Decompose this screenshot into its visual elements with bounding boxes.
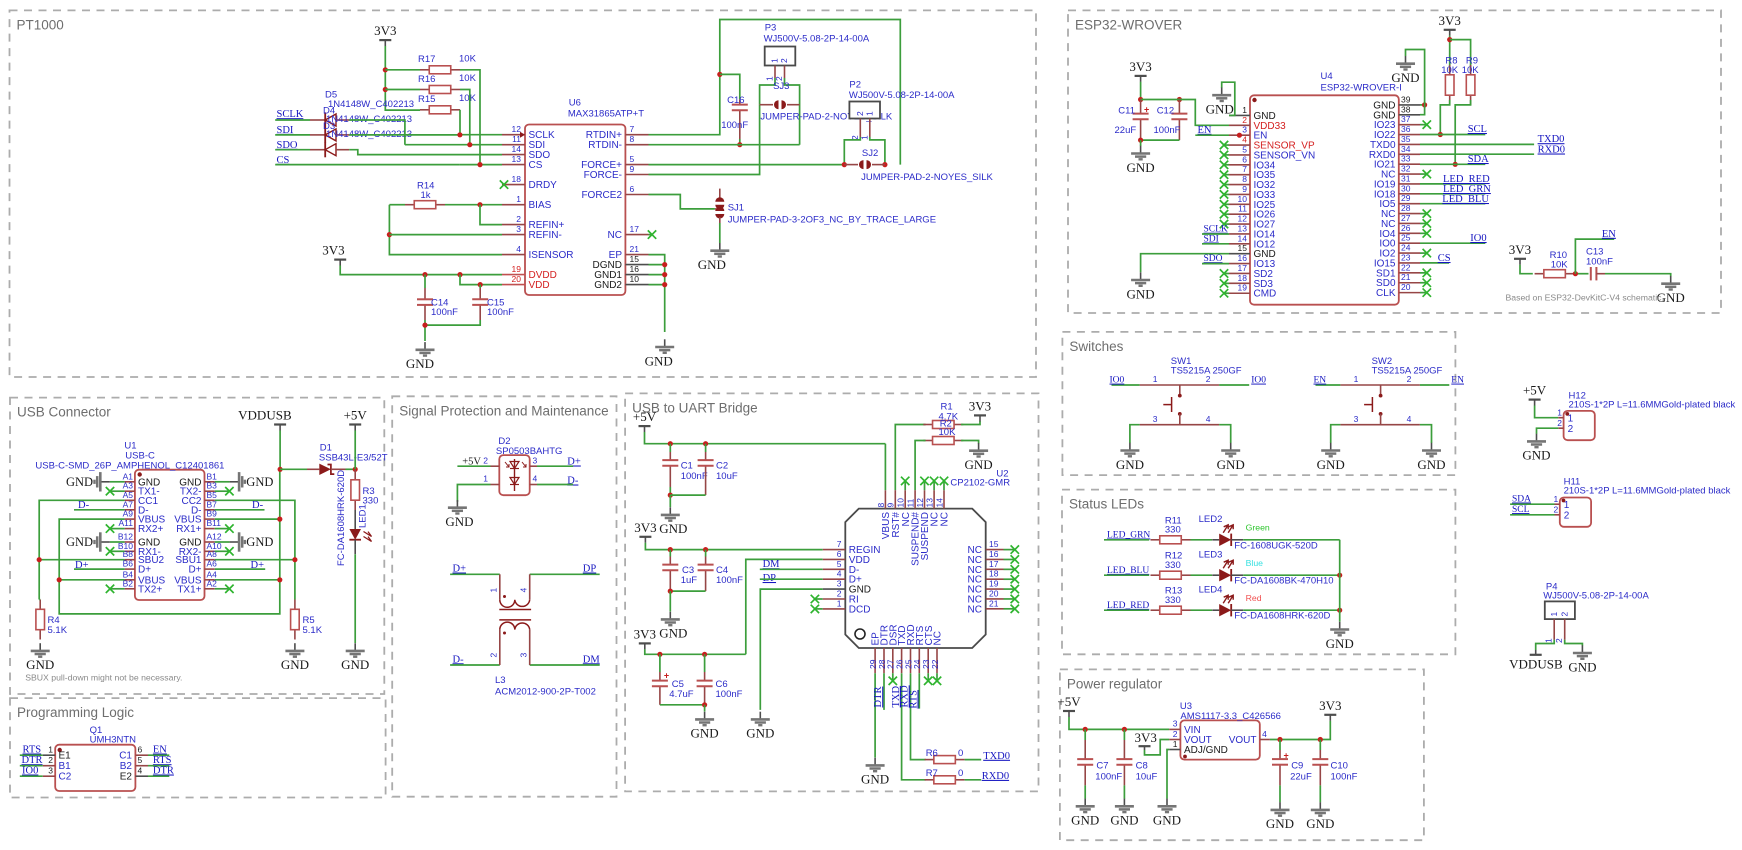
wire R2 to gnd: [961, 441, 979, 444]
wire EP to gnd: [874, 673, 876, 757]
no-connect U4 pin 18: [1220, 279, 1228, 287]
ground U3 ADJ: [1166, 799, 1168, 806]
wire RTS: [20, 754, 43, 756]
U1 pin B7 D-: [205, 509, 215, 511]
wire 3V3 to R15: [385, 46, 420, 110]
ground flag A1: [110, 481, 125, 483]
svg-text:1: 1: [1242, 105, 1247, 115]
U4 pin 33 IO21: [1399, 163, 1420, 165]
no-connect U2 pin10: [901, 477, 909, 485]
wire pins39-38 gnd: [1406, 50, 1425, 115]
wire CC1 down: [39, 500, 124, 599]
svg-text:3V3: 3V3: [1439, 13, 1461, 28]
wire DTR: [20, 765, 43, 767]
inductor L3 winding 2: [500, 622, 530, 629]
svg-text:11: 11: [1238, 204, 1247, 214]
wire nc lead: [1004, 558, 1015, 560]
U2 pin 6 VDD: [823, 558, 846, 560]
wire SDI label: [275, 134, 310, 136]
svg-text:18: 18: [1238, 273, 1248, 283]
svg-text:SDA: SDA: [1512, 495, 1531, 505]
svg-text:GND: GND: [341, 657, 369, 672]
svg-text:SSB43L-E3/52T: SSB43L-E3/52T: [319, 453, 388, 464]
svg-text:19: 19: [1238, 283, 1248, 293]
no-connect U4 pin 21: [1423, 279, 1431, 287]
svg-text:GND: GND: [1317, 457, 1345, 472]
wire D- B7: [215, 509, 265, 511]
svg-text:GND: GND: [698, 257, 726, 272]
wire nc lead: [904, 482, 906, 491]
wire VDDUSB down: [279, 431, 281, 470]
U1 pin B1 GND: [205, 481, 215, 483]
U4 pin 4 SENSOR_VP: [1229, 144, 1250, 146]
wire 3V3 to VDD33: [1141, 100, 1229, 126]
wire LED gnd rail: [1339, 540, 1341, 622]
P3 pin 1: [774, 66, 776, 79]
wire 3V3 to R17: [385, 69, 420, 71]
no-connect U2 pin 16: [1011, 555, 1019, 563]
svg-text:R7: R7: [926, 768, 938, 779]
svg-text:330: 330: [1165, 560, 1181, 571]
junction GND2: [662, 282, 667, 287]
svg-text:ADJ/GND: ADJ/GND: [1184, 745, 1228, 756]
ground flag B1: [215, 481, 230, 483]
svg-text:10K: 10K: [459, 93, 477, 104]
U1 pin B11 RX1+: [205, 528, 215, 530]
U4 pin 11 IO26: [1229, 213, 1250, 215]
wire SW1 right: [1219, 384, 1249, 386]
wire D- A7: [74, 509, 125, 511]
svg-text:6: 6: [138, 745, 143, 755]
P4 pin 2: [1564, 619, 1566, 640]
no-connect A2: [225, 585, 233, 593]
svg-text:SCL: SCL: [1512, 505, 1530, 515]
svg-text:LED1: LED1: [358, 504, 369, 528]
svg-text:CP2102-GMR: CP2102-GMR: [950, 478, 1010, 489]
wire EN q1: [148, 754, 169, 756]
U1 pin A12 GND: [205, 541, 215, 543]
no-connect U4 pin 11: [1220, 210, 1228, 218]
wire R1 to 3V3: [961, 421, 980, 425]
wire C13 to gnd: [1605, 274, 1671, 277]
svg-text:C10: C10: [1331, 761, 1348, 772]
svg-text:2: 2: [1407, 374, 1412, 384]
no-connect U4 pin 19: [1220, 289, 1228, 297]
wire LED1 to gnd: [354, 554, 356, 643]
U4 pin 27 NC: [1399, 222, 1420, 224]
svg-text:1: 1: [1354, 374, 1359, 384]
svg-text:REFIN-: REFIN-: [529, 230, 562, 241]
wire nc lead: [1004, 578, 1015, 580]
Q1 pin 4 E2: [135, 775, 148, 777]
wire DTR stub: [883, 673, 885, 710]
svg-text:CLK: CLK: [1376, 288, 1396, 299]
U2 pin 21 NC: [986, 608, 1004, 610]
svg-text:SCL: SCL: [1468, 124, 1487, 135]
wire 3V3 to VOUT pin2: [1145, 740, 1170, 755]
svg-text:21: 21: [1401, 272, 1411, 282]
junction C1 C2 gnd: [668, 493, 673, 498]
U6 pin 20 VDD: [502, 284, 525, 286]
svg-text:23: 23: [1401, 252, 1411, 262]
svg-text:330: 330: [1165, 595, 1181, 606]
U4 pin 19 CMD: [1229, 292, 1250, 294]
wire VBUS loop: [59, 469, 280, 614]
wire VBUS A4: [215, 579, 280, 581]
svg-text:ESP32-WROVER-I: ESP32-WROVER-I: [1321, 83, 1402, 94]
svg-text:D-: D-: [453, 654, 465, 665]
wire C10 gnd: [1319, 785, 1321, 802]
wire LED_RED: [1420, 183, 1485, 185]
svg-text:GND: GND: [1391, 70, 1419, 85]
svg-text:Status LEDs: Status LEDs: [1069, 497, 1144, 512]
svg-text:GND: GND: [1306, 816, 1334, 831]
U2 pin 1 DCD: [823, 608, 846, 610]
ground C9: [1279, 802, 1281, 809]
U2 pin 3 GND: [823, 588, 846, 590]
resistor R17: [420, 69, 429, 71]
wire to C9: [1279, 740, 1281, 751]
resistor R12: [1151, 574, 1160, 576]
ground R2: [978, 443, 980, 450]
wire nc lead: [1004, 588, 1015, 590]
wire C8 gnd: [1123, 785, 1125, 798]
ground SW2 right: [1431, 443, 1433, 450]
svg-text:5: 5: [138, 755, 143, 765]
ground U2 pin3: [759, 712, 761, 719]
Q1 pin 3 C2: [43, 775, 56, 777]
section box ESP32-WROVER: [1068, 10, 1721, 313]
connector P2: [849, 102, 880, 119]
svg-text:GND: GND: [1127, 160, 1155, 175]
junction SBU1/CC2: [292, 557, 297, 562]
svg-text:2: 2: [779, 58, 789, 63]
svg-text:9: 9: [630, 164, 635, 174]
svg-text:FC-DA1608BK-470H10: FC-DA1608BK-470H10: [1234, 576, 1333, 587]
wire to C1: [669, 444, 671, 452]
svg-text:12: 12: [512, 124, 522, 134]
svg-text:4.7uF: 4.7uF: [669, 689, 693, 700]
svg-text:2: 2: [1242, 115, 1247, 125]
resistor R1: [923, 424, 932, 426]
svg-text:+5V: +5V: [1523, 383, 1547, 398]
wire to C3: [669, 550, 671, 557]
wire to C16: [720, 74, 740, 99]
resistor R9: [1470, 65, 1472, 75]
svg-text:ACM2012-900-2P-T002: ACM2012-900-2P-T002: [495, 687, 596, 698]
wire nc lead: [1004, 549, 1015, 551]
svg-text:C9: C9: [1291, 761, 1303, 772]
ground R5: [294, 643, 296, 650]
svg-text:LED3: LED3: [1199, 550, 1223, 561]
resistor R16: [420, 89, 429, 91]
U1 pin A11 RX2+: [125, 528, 135, 530]
svg-text:USB Connector: USB Connector: [17, 405, 111, 420]
wire to C6: [704, 654, 706, 672]
svg-text:GND: GND: [66, 535, 93, 549]
wire to gnd esp1: [1140, 140, 1142, 146]
svg-text:GND: GND: [1217, 457, 1245, 472]
wire GND1: [649, 274, 665, 276]
section box PT1000: [10, 10, 1037, 377]
U4 pin 23 IO15: [1399, 262, 1420, 264]
capacitor: [472, 298, 488, 300]
svg-text:20: 20: [989, 588, 999, 598]
svg-text:1: 1: [1544, 638, 1554, 643]
svg-text:4: 4: [1262, 729, 1267, 739]
wire nc lead: [1420, 252, 1426, 254]
wire nc lead: [215, 588, 230, 590]
svg-text:CMD: CMD: [1254, 289, 1277, 300]
svg-text:TXD0: TXD0: [983, 751, 1010, 762]
svg-text:10K: 10K: [459, 73, 477, 84]
power VDDUSB: [274, 423, 286, 425]
svg-text:SCLK: SCLK: [277, 109, 304, 120]
wire R7 out: [965, 779, 982, 781]
U1 pin A3 TX1-: [125, 490, 135, 492]
ground C3 C4: [669, 612, 671, 619]
U4 pin 5 SENSOR_VN: [1229, 154, 1250, 156]
no-connect B11: [225, 524, 233, 532]
svg-text:GND: GND: [746, 726, 774, 741]
no-connect U4 pin 4: [1220, 141, 1228, 149]
wire IO0: [20, 775, 43, 777]
svg-text:GND: GND: [1116, 457, 1144, 472]
LED LED2: [1212, 539, 1219, 541]
U1 pin B6 D+: [125, 568, 135, 570]
diode D4: [324, 127, 326, 142]
U1 pin A2 TX1+: [205, 588, 215, 590]
svg-text:CS: CS: [1438, 253, 1451, 264]
junction GND1: [662, 272, 667, 277]
svg-text:17: 17: [1238, 263, 1248, 273]
power +5V H12: [1529, 399, 1541, 401]
U6 pin 15 DGND: [625, 264, 648, 266]
no-connect U4 pin 9: [1220, 190, 1228, 198]
wire D4 out: [349, 134, 460, 136]
wire nc lead: [927, 673, 929, 680]
svg-text:+: +: [664, 671, 669, 681]
U6 pin 5 FORCE+: [625, 164, 648, 166]
wire SW2 left: [1316, 384, 1341, 386]
no-connect DCD: [811, 605, 819, 613]
svg-text:+5V: +5V: [1057, 694, 1081, 709]
wire SCL: [1420, 134, 1485, 136]
junction C7: [1083, 727, 1088, 732]
svg-text:10: 10: [630, 274, 640, 284]
U4 pin 20 CLK: [1399, 292, 1420, 294]
svg-text:B2: B2: [120, 761, 133, 772]
ground H12: [1536, 434, 1538, 441]
wire VDD to C15: [479, 285, 481, 288]
junction 3V3/R17: [383, 67, 388, 72]
svg-text:22: 22: [930, 659, 940, 669]
wire SCL H11: [1510, 514, 1554, 516]
svg-text:FC-DA1608HRK-620D: FC-DA1608HRK-620D: [1234, 611, 1330, 622]
U6 pin 17 NC: [625, 234, 648, 236]
capacitor: [417, 298, 433, 300]
no-connect U2 pin12: [920, 477, 928, 485]
junction C6 gnd: [702, 702, 707, 707]
wire SCLK esp32: [1202, 233, 1229, 235]
svg-text:100nF: 100nF: [716, 689, 743, 700]
svg-text:3V3: 3V3: [1509, 242, 1531, 257]
svg-text:1: 1: [1557, 407, 1562, 417]
U2 pin 4 D+: [823, 578, 846, 580]
capacitor: [662, 564, 678, 566]
U6 pin 16 GND1: [625, 274, 648, 276]
U2 pin 2 RI: [823, 598, 846, 600]
svg-text:VDD: VDD: [529, 280, 550, 291]
svg-text:FC-1608UGK-520D: FC-1608UGK-520D: [1234, 540, 1318, 551]
resistor R6: [925, 759, 934, 761]
wire +5V to D2: [457, 465, 490, 467]
junction VBUS right: [277, 577, 282, 582]
U4 pin 9 IO33: [1229, 193, 1250, 195]
svg-text:100nF: 100nF: [1331, 771, 1358, 782]
svg-text:15: 15: [989, 539, 999, 549]
svg-text:P2: P2: [849, 80, 861, 91]
capacitor: [1590, 267, 1592, 280]
svg-text:16: 16: [989, 549, 999, 559]
svg-text:1: 1: [1564, 500, 1570, 511]
wire LED_BLU: [1104, 574, 1149, 576]
U4 pin 17 SD2: [1229, 272, 1250, 274]
ground EP: [874, 758, 876, 765]
ground SW1 right: [1230, 443, 1232, 450]
svg-text:SBUX pull-down might not be ne: SBUX pull-down might not be necessary.: [25, 673, 182, 683]
wire D3 out to SDO pin: [349, 150, 502, 155]
U4 pin 31 IO19: [1399, 183, 1420, 185]
capacitor: [1133, 113, 1149, 115]
wire R13 to LED4: [1191, 609, 1213, 611]
capacitor: [697, 680, 713, 682]
svg-text:100nF: 100nF: [721, 120, 748, 131]
wire nc lead: [1420, 173, 1426, 175]
wire to C10: [1319, 740, 1321, 751]
junction SJ2 right: [882, 162, 887, 167]
wire nc lead: [1004, 608, 1015, 610]
U6 pin 21 EP: [625, 254, 648, 256]
junction cap gnd: [422, 323, 427, 328]
wire SJ1 to gnd: [719, 223, 721, 243]
U4 pin 16 IO13: [1229, 263, 1250, 265]
svg-text:3: 3: [518, 653, 528, 658]
D2 internals: [514, 459, 516, 491]
ground U4 39 38: [1405, 56, 1407, 63]
wire R2 to SUSPEND#: [915, 441, 926, 491]
svg-text:SJ3: SJ3: [773, 81, 789, 92]
svg-text:2: 2: [1206, 374, 1211, 384]
wire 3V3 c5 rail: [645, 649, 746, 654]
junction C5: [657, 652, 662, 657]
wire SDO esp32: [1202, 263, 1229, 265]
svg-text:C16: C16: [727, 95, 744, 106]
U2 pin 13 NC: [933, 490, 935, 508]
wire nc lead: [1420, 232, 1426, 234]
no-connect U4 pin 27: [1423, 219, 1431, 227]
wire LED2 to gnd rail: [1243, 539, 1340, 541]
ground C8: [1123, 799, 1125, 806]
svg-text:SDA: SDA: [1468, 154, 1489, 165]
wire R15 to SCLK: [459, 110, 461, 135]
ground SW2 left: [1330, 443, 1332, 450]
D2 body: [499, 455, 529, 495]
svg-text:R15: R15: [418, 94, 435, 105]
U6 pin 19 DVDD: [502, 274, 525, 276]
wire P3-2 to RTDIN-: [785, 78, 800, 145]
no-connect U2 pin22: [933, 677, 941, 685]
U4 pin 38 GND: [1399, 114, 1420, 116]
U4 pin 7 IO35: [1229, 174, 1250, 176]
svg-text:1: 1: [48, 745, 53, 755]
svg-text:3V3: 3V3: [322, 243, 344, 258]
svg-text:7: 7: [837, 539, 842, 549]
wire to gnd3: [704, 705, 706, 712]
power 3V3 out: [1324, 714, 1336, 716]
section box Signal Protection: [392, 396, 616, 796]
U2 pin 23 CTS: [927, 648, 929, 673]
svg-text:Programming Logic: Programming Logic: [17, 705, 134, 720]
wire nc lead: [110, 588, 125, 590]
U2 pin 7 REGIN: [823, 549, 846, 551]
U4 pin 24 IO2: [1399, 252, 1420, 254]
svg-text:5.1K: 5.1K: [303, 625, 323, 636]
connector P4: [1545, 601, 1575, 619]
no-connect U4 pin 6: [1220, 161, 1228, 169]
svg-text:RX2+: RX2+: [138, 524, 163, 535]
wire C16 to RTDIN-: [739, 139, 741, 145]
ground SJ1: [719, 243, 721, 250]
wire P2 to SJ2 right: [870, 137, 885, 165]
no-connect U4 pin 26: [1423, 229, 1431, 237]
resistor R2: [923, 440, 932, 442]
svg-text:19: 19: [989, 579, 999, 589]
wire FORCE2 to SJ1: [649, 195, 715, 209]
junction C14: [422, 272, 427, 277]
svg-text:DP: DP: [583, 564, 597, 575]
svg-text:27: 27: [1401, 213, 1411, 223]
U2 pin 16 NC: [986, 558, 1004, 560]
wire SDI to pin: [470, 144, 502, 146]
svg-text:WJ500V-5.08-2P-14-00A: WJ500V-5.08-2P-14-00A: [1543, 591, 1649, 602]
no-connect A3: [106, 487, 114, 495]
svg-text:2: 2: [516, 214, 521, 224]
wire nc lead: [1420, 213, 1426, 215]
svg-text:100nF: 100nF: [681, 471, 708, 482]
U6 pin 9 FORCE-: [625, 174, 648, 176]
IC U2 CP2102-GMR: [845, 509, 985, 648]
wire VBUS B9: [215, 518, 280, 520]
wire nc lead: [1420, 292, 1426, 294]
svg-text:10K: 10K: [1441, 65, 1459, 76]
Q1 body: [55, 745, 135, 791]
junction C3 gnd: [668, 589, 673, 594]
svg-text:39: 39: [1401, 94, 1411, 104]
wire D- to L3: [450, 664, 500, 666]
U1 pin B10 RX1-: [125, 550, 135, 552]
U4 pin 1 GND: [1229, 114, 1250, 116]
U6 pin 6 FORCE2: [625, 194, 648, 196]
wire LED3 to gnd rail: [1243, 574, 1340, 576]
svg-text:8: 8: [1242, 174, 1247, 184]
resistor R8: [1449, 65, 1451, 75]
svg-text:Based on ESP32-DevKitC-V4 sche: Based on ESP32-DevKitC-V4 schematic.: [1506, 293, 1664, 303]
svg-text:100nF: 100nF: [431, 307, 458, 318]
svg-text:33: 33: [1401, 154, 1411, 164]
H12 body: [1564, 411, 1595, 440]
SJ1 pads top: [715, 197, 724, 202]
